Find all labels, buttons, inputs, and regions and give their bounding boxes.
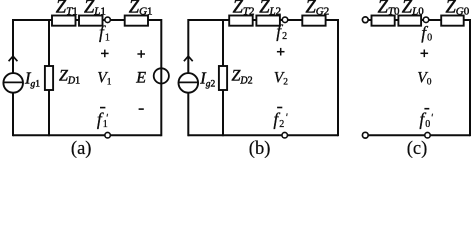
label f0' prime tick: [431, 114, 434, 117]
label minus-bar over f0': [424, 108, 429, 110]
label plus V1: [101, 50, 109, 58]
terminal (c) top-left open: [362, 17, 368, 23]
svg-text:(b): (b): [249, 139, 271, 158]
node f1 terminal (top): [105, 17, 111, 23]
label minus E: [139, 108, 144, 110]
resistor ZG2 box: [302, 16, 325, 26]
voltage source E: [154, 68, 169, 83]
wire: circuit (b) top rail: [188, 19, 338, 21]
label f2' prime tick: [286, 113, 289, 116]
wire: circuit (a) bottom rail: [13, 134, 161, 136]
resistor ZL2 box: [256, 16, 280, 26]
label plus V2: [277, 48, 285, 56]
node f1' terminal (bottom): [105, 132, 111, 138]
wire: circuit (b) left branch vertical: [187, 19, 189, 136]
wire: circuit (a) top rail: [13, 19, 161, 21]
resistor ZL0 box: [398, 16, 421, 26]
wire: circuit (b) right branch vertical: [337, 19, 339, 136]
svg-text:E: E: [135, 69, 146, 86]
wire: circuit (c) top rail: [369, 19, 471, 21]
svg-text:(a): (a): [71, 139, 92, 158]
resistor ZT2 box: [229, 16, 253, 26]
node f0 terminal (top): [423, 17, 429, 23]
wire: circuit (a) left branch vertical: [12, 19, 14, 136]
current source Ig2 arrow: [184, 56, 193, 61]
wire: circuit (a) right branch vertical: [160, 19, 162, 136]
label plus V0: [421, 50, 429, 58]
wire: circuit (a) ZD1 branch vertical: [48, 19, 50, 136]
wire: circuit (c) right branch vertical: [469, 19, 471, 136]
current source Ig1 arrow: [9, 56, 18, 61]
node f0' terminal (bottom): [425, 132, 431, 138]
terminal (c) bottom-left open: [362, 132, 368, 138]
label f1' prime tick: [106, 114, 109, 117]
impedance ZD1 (vertical box): [45, 66, 53, 90]
resistor ZG0 box: [441, 16, 464, 26]
wire: circuit (b) ZD2 branch vertical: [222, 19, 224, 136]
svg-text:(c): (c): [407, 139, 428, 158]
resistor ZT1 box: [52, 16, 76, 26]
label minus-bar over f1': [100, 107, 105, 109]
current source Ig1: [3, 73, 23, 93]
wire: circuit (b) bottom rail: [188, 134, 338, 136]
current source Ig2: [179, 73, 199, 93]
node f2 terminal (top): [282, 17, 288, 23]
resistor ZT0 box: [372, 16, 395, 26]
label minus-bar over f2': [277, 107, 282, 109]
node f2' terminal (bottom): [282, 132, 288, 138]
wire: circuit (c) bottom rail: [369, 134, 471, 136]
resistor ZL1 box: [79, 16, 103, 26]
label plus E: [137, 50, 145, 58]
resistor ZG1 box: [125, 16, 148, 26]
impedance ZD2 (vertical box): [219, 66, 227, 90]
